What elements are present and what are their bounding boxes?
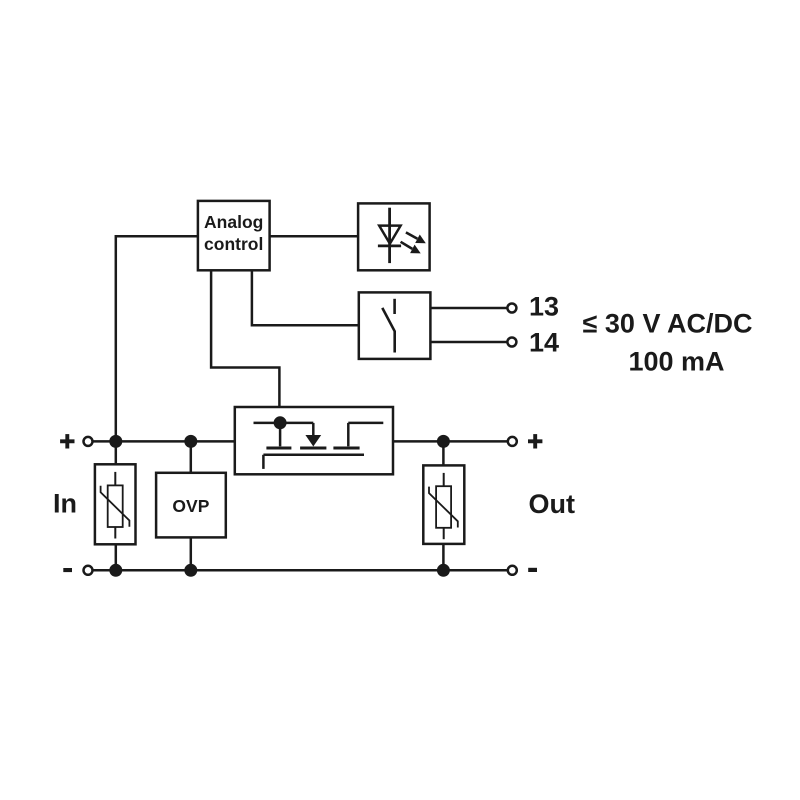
box U1 Analog control <box>198 201 270 270</box>
label + input <box>60 439 74 443</box>
source connection line <box>263 454 364 457</box>
terminal circle 14 <box>507 338 516 347</box>
source connection tail <box>262 455 265 469</box>
junction dot - rail / OVP <box>184 564 197 577</box>
relay contact box K1 <box>359 292 431 359</box>
LED D1 triangle <box>379 226 400 244</box>
svg-text:≤ 30 V AC/DC: ≤ 30 V AC/DC <box>583 309 753 339</box>
switch blade <box>382 308 394 353</box>
varistor RU2 bottom lead <box>442 544 445 570</box>
wire Analog control to status relay <box>252 270 359 325</box>
junction dot + rail / analog wire <box>109 435 122 448</box>
gate bar 3 <box>333 447 359 450</box>
varistor RU1 top lead <box>115 441 118 464</box>
OVP bottom lead <box>190 537 193 570</box>
LED light arrow 2 <box>401 242 413 249</box>
svg-text:100 mA: 100 mA <box>629 347 725 377</box>
svg-text:13: 13 <box>529 292 559 322</box>
wire contact to terminal 14 <box>430 341 512 344</box>
varistor RU1 body <box>108 485 123 527</box>
varistor RU2 top lead <box>442 441 445 465</box>
svg-text:Analog: Analog <box>204 212 263 232</box>
gate bar 1 <box>266 447 291 450</box>
terminal circle Out + <box>508 437 517 446</box>
label - output <box>528 568 537 572</box>
body diode shaft <box>312 423 315 435</box>
terminal circle Out - <box>508 566 517 575</box>
MOSFET right top horizontal <box>348 422 383 425</box>
varistor RU1 box <box>95 464 136 544</box>
body diode arrowhead <box>305 435 321 447</box>
svg-text:OVP: OVP <box>172 496 209 516</box>
MOSFET right vertical <box>347 423 350 446</box>
wire from Analog control left to + rail <box>116 236 198 441</box>
MOSFET drain line left <box>254 422 314 425</box>
junction dot + rail / OVP <box>184 435 197 448</box>
wire Analog control to LED indicator <box>270 235 359 238</box>
varistor RU2 body <box>436 486 451 528</box>
svg-text:control: control <box>204 234 263 254</box>
OVP box <box>156 473 226 538</box>
junction dot - rail / varistor RU2 <box>437 564 450 577</box>
label - input <box>63 568 72 572</box>
output MOSFET box Q1 <box>235 407 393 474</box>
svg-text:Out: Out <box>529 489 576 519</box>
varistor RU1 inner top lead <box>114 472 116 486</box>
svg-text:In: In <box>53 489 77 519</box>
+ rail left segment <box>88 440 235 443</box>
terminal circle 13 <box>507 304 516 313</box>
varistor RU2 diagonal <box>429 487 458 528</box>
LED light arrow 1 <box>406 232 418 238</box>
LED D1 cathode bar <box>378 244 401 247</box>
LED box U2 <box>358 203 430 270</box>
junction dot + rail / varistor RU2 <box>437 435 450 448</box>
label + output <box>528 439 542 443</box>
varistor RU2 box <box>423 465 464 544</box>
OVP top lead <box>190 441 193 472</box>
MOSFET left vertical <box>279 423 282 447</box>
varistor RU1 inner bottom lead <box>114 527 116 538</box>
terminal circle In - <box>84 566 93 575</box>
junction dot in MOSFET box <box>274 416 287 429</box>
varistor RU2 inner bottom lead <box>443 528 445 539</box>
terminal circle In + <box>84 437 93 446</box>
svg-text:14: 14 <box>529 328 559 358</box>
varistor RU1 bottom lead <box>115 544 118 570</box>
LED D1 anode lead <box>388 208 391 263</box>
wire contact to terminal 13 <box>430 307 512 310</box>
junction dot - rail / varistor RU1 <box>109 564 122 577</box>
- rail <box>88 569 512 572</box>
varistor RU2 inner top lead <box>443 473 445 486</box>
gate bar 2 <box>300 447 326 450</box>
+ rail right segment <box>393 440 512 443</box>
varistor RU1 diagonal <box>101 486 130 527</box>
switch fixed contact <box>393 299 396 314</box>
wire Analog control to output MOSFET gate <box>211 270 279 407</box>
